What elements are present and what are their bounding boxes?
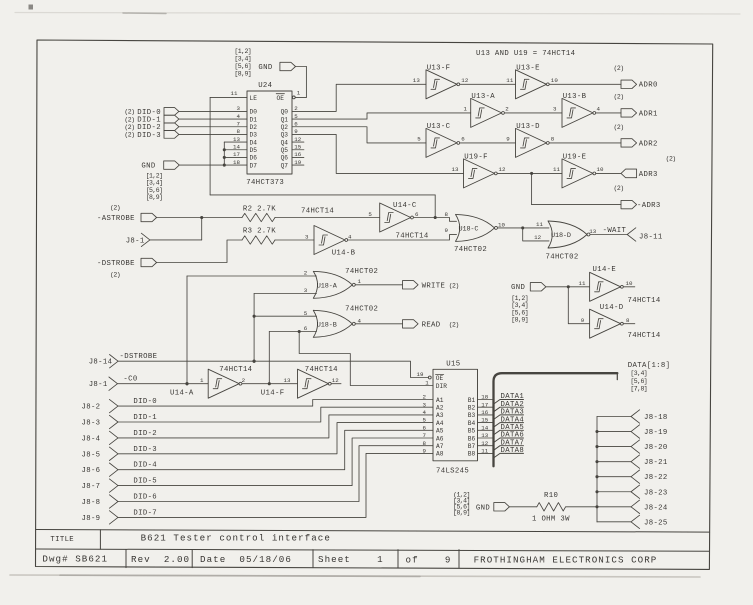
svg-text:[3,4]: [3,4] xyxy=(630,370,647,377)
svg-text:U13-F: U13-F xyxy=(427,64,451,72)
svg-text:J8-2: J8-2 xyxy=(82,404,101,412)
svg-text:16: 16 xyxy=(294,151,302,158)
svg-text:13: 13 xyxy=(589,228,597,235)
svg-text:U13-D: U13-D xyxy=(516,123,540,131)
svg-text:6: 6 xyxy=(423,424,427,431)
svg-text:12: 12 xyxy=(461,77,469,84)
svg-text:J8-21: J8-21 xyxy=(644,459,668,467)
svg-text:Q4: Q4 xyxy=(281,139,289,146)
svg-text:10: 10 xyxy=(626,280,634,287)
svg-text:B6: B6 xyxy=(468,435,476,442)
svg-text:Dwg# SB621: Dwg# SB621 xyxy=(42,554,108,565)
svg-text:15: 15 xyxy=(294,144,302,151)
svg-text:(2): (2) xyxy=(614,94,624,101)
svg-text:B2: B2 xyxy=(468,405,476,412)
svg-text:J8-20: J8-20 xyxy=(644,444,668,452)
svg-text:[5,6]: [5,6] xyxy=(146,187,163,194)
svg-text:1: 1 xyxy=(464,106,468,113)
svg-text:DATA[1:8]: DATA[1:8] xyxy=(628,362,671,370)
svg-text:OE: OE xyxy=(277,95,285,102)
svg-text:GND: GND xyxy=(476,504,490,512)
svg-text:R2 2.7K: R2 2.7K xyxy=(243,206,276,214)
svg-text:12: 12 xyxy=(481,440,489,447)
svg-text:6: 6 xyxy=(294,121,298,128)
svg-text:U15: U15 xyxy=(446,361,460,369)
svg-text:Q0: Q0 xyxy=(281,109,289,116)
svg-text:11: 11 xyxy=(579,280,587,287)
svg-text:Sheet 1: Sheet 1 xyxy=(318,554,384,565)
svg-text:D6: D6 xyxy=(250,155,258,162)
svg-text:D2: D2 xyxy=(250,124,258,131)
svg-text:9: 9 xyxy=(294,128,298,135)
svg-text:J8-18: J8-18 xyxy=(644,414,668,422)
svg-text:D3: D3 xyxy=(250,132,258,139)
svg-text:J8-6: J8-6 xyxy=(82,467,101,475)
svg-text:74HCT02: 74HCT02 xyxy=(345,268,378,276)
svg-text:3: 3 xyxy=(305,234,309,241)
svg-text:U14-D: U14-D xyxy=(600,304,624,312)
svg-text:B3: B3 xyxy=(468,412,476,419)
svg-text:Q1: Q1 xyxy=(281,116,289,123)
svg-text:5: 5 xyxy=(417,136,421,143)
svg-text:-ASTROBE: -ASTROBE xyxy=(97,215,135,223)
svg-text:74HCT14: 74HCT14 xyxy=(301,208,334,216)
svg-text:11: 11 xyxy=(553,166,561,173)
svg-text:74HCT02: 74HCT02 xyxy=(546,254,579,262)
svg-text:J8-9: J8-9 xyxy=(82,515,101,523)
svg-text:U14-F: U14-F xyxy=(261,390,285,398)
svg-text:8: 8 xyxy=(445,211,449,218)
svg-text:(2): (2) xyxy=(110,205,120,212)
svg-text:U24: U24 xyxy=(258,82,272,90)
svg-text:J8-24: J8-24 xyxy=(644,504,668,512)
svg-text:[8,9]: [8,9] xyxy=(511,317,528,324)
svg-text:(2): (2) xyxy=(124,124,134,131)
svg-text:DATA8: DATA8 xyxy=(501,447,525,455)
svg-text:OE: OE xyxy=(436,375,444,382)
svg-text:5: 5 xyxy=(423,417,427,424)
svg-text:[5,6]: [5,6] xyxy=(234,63,251,70)
svg-text:D7: D7 xyxy=(250,162,258,169)
svg-text:[7,8]: [7,8] xyxy=(630,386,647,393)
svg-text:13: 13 xyxy=(452,166,460,173)
svg-text:74HCT373: 74HCT373 xyxy=(246,179,284,187)
svg-text:J8-25: J8-25 xyxy=(644,519,668,527)
svg-text:A7: A7 xyxy=(436,443,444,450)
svg-text:2: 2 xyxy=(423,394,427,401)
svg-text:GND: GND xyxy=(511,284,525,292)
svg-text:8: 8 xyxy=(626,317,630,324)
svg-text:8: 8 xyxy=(237,128,241,135)
svg-text:U13-A: U13-A xyxy=(471,93,495,101)
svg-text:-C0: -C0 xyxy=(123,375,137,383)
svg-text:74LS245: 74LS245 xyxy=(436,467,469,475)
svg-text:DID-3: DID-3 xyxy=(137,132,161,140)
svg-text:74HCT14: 74HCT14 xyxy=(628,297,661,305)
svg-text:U14-E: U14-E xyxy=(593,266,617,274)
svg-text:17: 17 xyxy=(481,401,489,408)
svg-text:15: 15 xyxy=(481,417,489,424)
svg-text:(2): (2) xyxy=(666,155,676,162)
svg-text:R3 2.7K: R3 2.7K xyxy=(243,227,276,235)
svg-text:(2): (2) xyxy=(124,132,134,139)
svg-text:U14-A: U14-A xyxy=(170,390,194,398)
svg-text:B1: B1 xyxy=(468,397,476,404)
svg-text:DID-3: DID-3 xyxy=(133,446,157,454)
svg-text:B621 Tester control interface: B621 Tester control interface xyxy=(141,532,331,543)
svg-text:9: 9 xyxy=(581,317,585,324)
svg-text:9: 9 xyxy=(445,227,449,234)
svg-text:D1: D1 xyxy=(250,116,258,123)
svg-text:(2): (2) xyxy=(614,124,624,131)
svg-text:7: 7 xyxy=(237,121,241,128)
svg-text:U13 AND U19 = 74HCT14: U13 AND U19 = 74HCT14 xyxy=(476,50,576,58)
svg-text:8: 8 xyxy=(423,440,427,447)
svg-text:2: 2 xyxy=(304,270,308,277)
svg-text:(2): (2) xyxy=(449,321,459,328)
svg-text:Q2: Q2 xyxy=(281,124,289,131)
svg-text:DID-4: DID-4 xyxy=(133,462,157,470)
svg-text:J8-7: J8-7 xyxy=(82,483,101,491)
svg-text:1: 1 xyxy=(200,377,204,384)
svg-text:of 9: of 9 xyxy=(406,554,452,565)
svg-text:J8-8: J8-8 xyxy=(82,499,101,507)
svg-text:DID-5: DID-5 xyxy=(133,478,157,486)
svg-text:U14-C: U14-C xyxy=(393,202,417,210)
svg-text:J8-4: J8-4 xyxy=(82,435,101,443)
svg-text:DID-1: DID-1 xyxy=(133,414,157,422)
svg-text:[8,9]: [8,9] xyxy=(146,194,163,201)
svg-text:(2): (2) xyxy=(124,116,134,123)
svg-text:11: 11 xyxy=(481,448,489,455)
svg-text:WRITE: WRITE xyxy=(422,282,446,290)
svg-text:3: 3 xyxy=(304,287,308,294)
svg-text:11: 11 xyxy=(231,90,239,97)
svg-text:LE: LE xyxy=(250,95,258,102)
svg-text:12: 12 xyxy=(332,377,340,384)
svg-text:5: 5 xyxy=(294,113,298,120)
svg-text:4: 4 xyxy=(348,233,352,240)
svg-text:16: 16 xyxy=(481,409,489,416)
svg-text:[3,4]: [3,4] xyxy=(234,55,251,62)
svg-text:2: 2 xyxy=(505,106,509,113)
svg-text:U18-C: U18-C xyxy=(459,225,479,233)
svg-text:U19-F: U19-F xyxy=(464,153,488,161)
svg-text:[8,9]: [8,9] xyxy=(234,70,251,77)
svg-text:J8-3: J8-3 xyxy=(82,420,101,428)
svg-text:1: 1 xyxy=(425,379,429,386)
svg-text:9: 9 xyxy=(423,448,427,455)
svg-text:1 OHM 3W: 1 OHM 3W xyxy=(532,516,570,524)
svg-text:U13-B: U13-B xyxy=(563,93,587,101)
svg-text:GND: GND xyxy=(141,163,155,171)
svg-text:7: 7 xyxy=(423,432,427,439)
svg-text:5: 5 xyxy=(304,310,308,317)
svg-text:U19-E: U19-E xyxy=(563,153,587,161)
svg-text:[5,6]: [5,6] xyxy=(511,309,528,316)
svg-text:8: 8 xyxy=(551,136,555,143)
svg-text:(2): (2) xyxy=(614,65,624,72)
svg-text:6: 6 xyxy=(304,325,308,332)
svg-text:FROTHINGHAM ELECTRONICS CORP: FROTHINGHAM ELECTRONICS CORP xyxy=(474,555,658,566)
svg-text:D0: D0 xyxy=(250,109,258,116)
svg-text:J8-11: J8-11 xyxy=(639,234,663,242)
svg-text:J8-22: J8-22 xyxy=(644,474,668,482)
svg-text:R10: R10 xyxy=(544,492,558,500)
svg-text:J8-14: J8-14 xyxy=(89,359,113,367)
svg-text:4: 4 xyxy=(237,113,241,120)
svg-text:J8-23: J8-23 xyxy=(644,489,668,497)
svg-text:READ: READ xyxy=(422,321,441,329)
svg-text:19: 19 xyxy=(417,371,425,378)
svg-text:ADR3: ADR3 xyxy=(639,171,658,179)
svg-text:[1,2]: [1,2] xyxy=(234,48,251,55)
svg-text:ADR0: ADR0 xyxy=(639,82,658,90)
svg-text:13: 13 xyxy=(284,377,292,384)
svg-text:4: 4 xyxy=(597,106,601,113)
svg-text:Q5: Q5 xyxy=(281,147,289,154)
svg-text:18: 18 xyxy=(233,159,241,166)
svg-text:ADR1: ADR1 xyxy=(639,110,658,118)
svg-text:[5,6]: [5,6] xyxy=(630,378,647,385)
svg-text:[8,9]: [8,9] xyxy=(453,509,470,516)
svg-text:-WAIT: -WAIT xyxy=(603,227,627,235)
svg-text:J8-1: J8-1 xyxy=(89,381,108,389)
svg-text:B7: B7 xyxy=(468,443,476,450)
svg-text:U18-D: U18-D xyxy=(551,232,571,240)
svg-text:11: 11 xyxy=(506,77,514,84)
svg-text:J8-5: J8-5 xyxy=(82,451,101,459)
svg-text:[3,4]: [3,4] xyxy=(146,180,163,187)
svg-text:B4: B4 xyxy=(468,420,476,427)
svg-text:J8-1: J8-1 xyxy=(126,237,145,245)
svg-text:(2): (2) xyxy=(449,282,459,289)
svg-text:U13-E: U13-E xyxy=(516,64,540,72)
svg-text:DID-0: DID-0 xyxy=(133,398,157,406)
svg-text:Rev 2.00: Rev 2.00 xyxy=(131,554,190,565)
svg-text:10: 10 xyxy=(551,77,559,84)
svg-text:[1,2]: [1,2] xyxy=(511,295,528,302)
svg-text:-DSTROBE: -DSTROBE xyxy=(120,353,158,361)
svg-text:14: 14 xyxy=(233,144,241,151)
svg-text:Q6: Q6 xyxy=(281,155,289,162)
svg-text:74HCT14: 74HCT14 xyxy=(305,366,338,374)
svg-text:A4: A4 xyxy=(436,420,444,427)
svg-text:A1: A1 xyxy=(436,397,444,404)
svg-text:10: 10 xyxy=(597,166,605,173)
svg-text:19: 19 xyxy=(294,159,302,166)
svg-text:18: 18 xyxy=(481,394,489,401)
svg-text:13: 13 xyxy=(233,136,241,143)
svg-text:A3: A3 xyxy=(436,412,444,419)
svg-text:6: 6 xyxy=(415,211,419,218)
svg-text:J8-19: J8-19 xyxy=(644,429,668,437)
svg-text:U13-C: U13-C xyxy=(427,123,451,131)
svg-text:12: 12 xyxy=(294,136,302,143)
svg-text:(2): (2) xyxy=(110,271,120,278)
svg-text:74HCT14: 74HCT14 xyxy=(219,366,252,374)
svg-text:4: 4 xyxy=(423,409,427,416)
svg-text:GND: GND xyxy=(258,64,272,72)
svg-text:(2): (2) xyxy=(124,109,134,116)
svg-text:9: 9 xyxy=(506,136,510,143)
svg-text:DID-2: DID-2 xyxy=(133,430,157,438)
svg-text:1: 1 xyxy=(297,90,301,97)
svg-text:D5: D5 xyxy=(250,147,258,154)
svg-text:3: 3 xyxy=(423,401,427,408)
svg-text:[1,2]: [1,2] xyxy=(146,173,163,180)
svg-text:DID-6: DID-6 xyxy=(133,494,157,502)
svg-text:A8: A8 xyxy=(436,451,444,458)
svg-text:10: 10 xyxy=(498,221,506,228)
svg-text:DID-7: DID-7 xyxy=(133,509,157,517)
svg-text:A5: A5 xyxy=(436,428,444,435)
svg-text:74HCT02: 74HCT02 xyxy=(454,246,487,254)
svg-text:U18-B: U18-B xyxy=(317,321,337,329)
svg-text:Date 05/18/06: Date 05/18/06 xyxy=(200,554,292,565)
svg-text:13: 13 xyxy=(481,432,489,439)
svg-text:Q7: Q7 xyxy=(281,162,289,169)
svg-text:11: 11 xyxy=(536,221,544,228)
svg-text:1: 1 xyxy=(358,278,362,285)
svg-text:DIR: DIR xyxy=(436,383,447,390)
svg-text:D4: D4 xyxy=(250,139,258,146)
svg-text:ADR2: ADR2 xyxy=(639,140,658,148)
svg-text:B8: B8 xyxy=(468,451,476,458)
svg-text:(2): (2) xyxy=(614,185,624,192)
svg-text:TITLE: TITLE xyxy=(50,536,74,544)
svg-text:-DSTROBE: -DSTROBE xyxy=(97,260,135,268)
svg-text:Q3: Q3 xyxy=(281,132,289,139)
svg-text:A2: A2 xyxy=(436,405,444,412)
svg-text:6: 6 xyxy=(461,136,465,143)
svg-text:-ADR3: -ADR3 xyxy=(637,202,661,210)
svg-text:U18-A: U18-A xyxy=(317,282,338,290)
svg-text:2: 2 xyxy=(242,377,246,384)
svg-text:17: 17 xyxy=(233,151,241,158)
svg-text:3: 3 xyxy=(237,105,241,112)
svg-text:13: 13 xyxy=(413,77,421,84)
svg-text:U14-B: U14-B xyxy=(332,250,356,258)
svg-text:3: 3 xyxy=(553,106,557,113)
svg-text:B5: B5 xyxy=(468,428,476,435)
svg-text:12: 12 xyxy=(499,166,507,173)
svg-text:12: 12 xyxy=(534,234,542,241)
svg-text:2: 2 xyxy=(294,105,298,112)
svg-text:5: 5 xyxy=(368,211,372,218)
svg-text:74HCT02: 74HCT02 xyxy=(345,305,378,313)
svg-text:4: 4 xyxy=(358,317,362,324)
svg-text:A6: A6 xyxy=(436,435,444,442)
svg-text:74HCT14: 74HCT14 xyxy=(396,232,429,240)
svg-text:74HCT14: 74HCT14 xyxy=(628,332,661,340)
svg-text:[3,4]: [3,4] xyxy=(511,302,528,309)
svg-text:14: 14 xyxy=(481,424,489,431)
